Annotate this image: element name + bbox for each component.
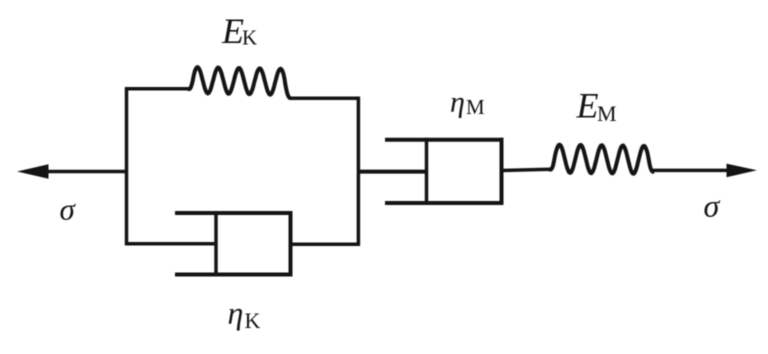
wire: dashpot eta_M to spring E_M <box>501 169 550 170</box>
dashpot eta_M piston plate <box>425 138 429 205</box>
label eta_K <box>228 295 261 334</box>
dashpot eta_K cylinder bottom <box>175 273 293 277</box>
dashpot eta_K piston plate <box>214 211 218 277</box>
svg-text:η: η <box>228 295 244 331</box>
svg-text:K: K <box>242 26 257 50</box>
svg-text:K: K <box>245 308 261 333</box>
spring E_M <box>549 145 654 174</box>
dashpot eta_K right edge <box>289 211 293 277</box>
svg-text:M: M <box>466 95 485 119</box>
wire: middle rod <box>358 170 427 174</box>
label sigma left <box>60 192 77 227</box>
dashpot eta_K cylinder top <box>175 211 293 215</box>
Kelvin left bar <box>125 87 129 245</box>
svg-text:E: E <box>576 86 599 126</box>
wire: Kelvin top-left <box>125 87 189 91</box>
left arrowhead <box>17 164 49 179</box>
svg-text:M: M <box>597 101 617 126</box>
dashpot eta_M right edge <box>500 138 504 205</box>
svg-text:E: E <box>221 11 244 51</box>
right arrowhead <box>727 164 758 178</box>
wire: Kelvin top-right <box>289 97 360 101</box>
wire: Kelvin bottom-left <box>125 242 216 246</box>
label eta_M <box>450 86 485 120</box>
label E_K <box>221 11 257 51</box>
dashpot eta_M cylinder top <box>385 138 504 142</box>
wire: Kelvin bottom-right <box>290 243 360 247</box>
label E_M <box>576 86 617 126</box>
dashpot eta_M cylinder bottom <box>385 201 504 205</box>
svg-text:σ: σ <box>60 192 77 227</box>
label sigma right <box>704 188 721 224</box>
svg-text:η: η <box>450 86 465 119</box>
left arrow shaft <box>42 170 127 174</box>
svg-text:σ: σ <box>704 188 721 224</box>
wire: right lead <box>653 169 730 173</box>
spring E_K <box>188 67 290 98</box>
Kelvin right bar <box>357 97 361 246</box>
